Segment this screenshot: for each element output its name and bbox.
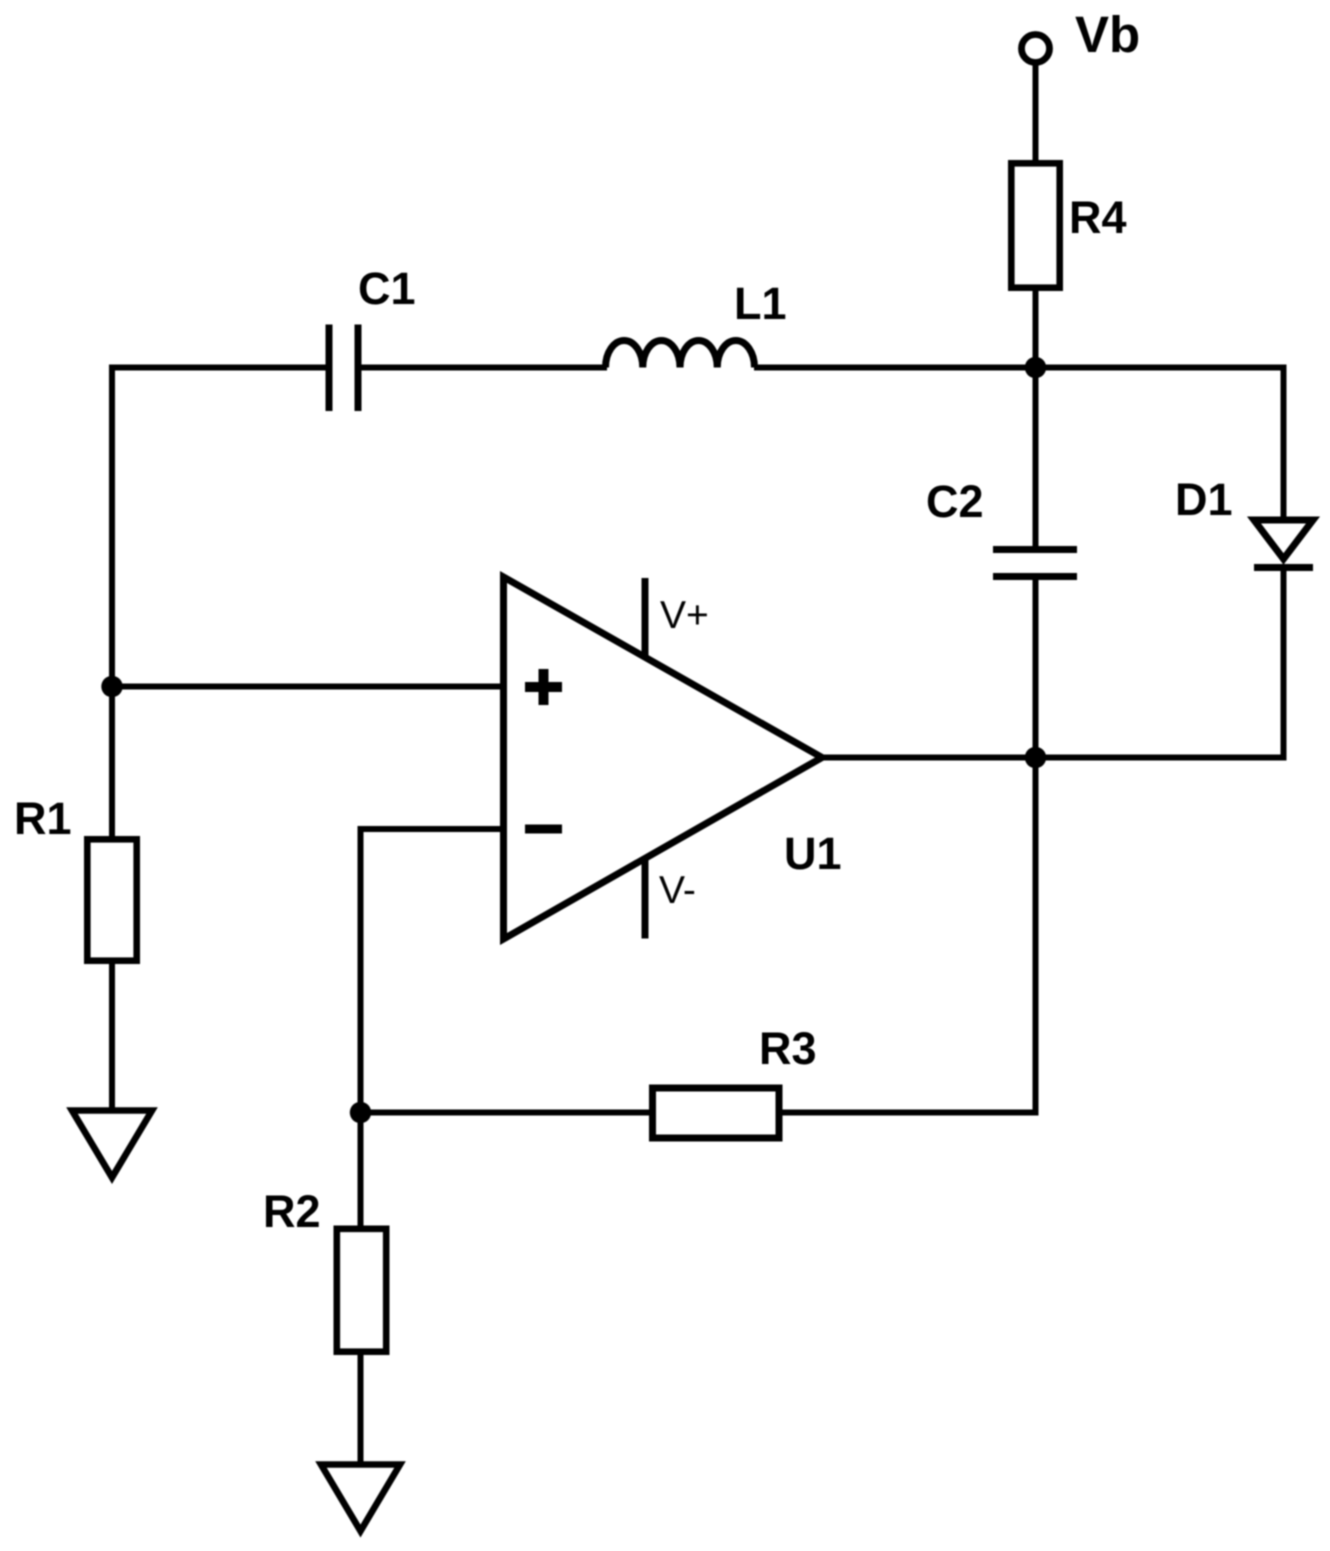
wire non-inverting input — [112, 684, 504, 690]
svg-text:R3: R3 — [759, 1023, 817, 1074]
svg-text:R1: R1 — [14, 793, 72, 844]
op-amp V+ pin — [642, 578, 649, 656]
resistor R3 — [653, 1088, 780, 1138]
resistor R1 — [87, 839, 136, 960]
svg-text:R2: R2 — [263, 1186, 321, 1237]
ground G2 — [321, 1465, 400, 1532]
svg-text:V+: V+ — [660, 594, 709, 637]
wire inverting vertical — [358, 826, 364, 1113]
wire top rail left segment — [112, 365, 329, 371]
junction output node — [1025, 747, 1046, 768]
junction node A — [101, 676, 122, 697]
wire node B to R2 — [358, 1113, 364, 1230]
junction top node — [1025, 357, 1046, 378]
op-amp U1 — [504, 577, 823, 939]
wire C2 to output node — [1033, 580, 1039, 758]
ground G1 — [72, 1111, 152, 1178]
svg-text:U1: U1 — [784, 828, 842, 879]
junction node B — [350, 1102, 371, 1123]
svg-text:V-: V- — [659, 869, 696, 912]
wire inverting input — [361, 826, 504, 832]
wire left rail down — [109, 365, 115, 687]
op-amp plus input marker — [525, 669, 562, 705]
resistor R2 — [337, 1229, 386, 1352]
diode D1 — [1254, 520, 1313, 559]
wire C1 to L1 — [358, 365, 607, 371]
diode D1 cathode bar — [1254, 564, 1313, 571]
svg-text:D1: D1 — [1175, 474, 1233, 525]
node Vb terminal — [1022, 35, 1050, 63]
wire top node to C2 — [1033, 368, 1039, 547]
inductor L1 — [606, 340, 755, 367]
svg-text:C1: C1 — [358, 263, 416, 314]
svg-text:L1: L1 — [734, 278, 787, 329]
wire Vb to R4 — [1033, 66, 1039, 164]
capacitor C1 — [329, 325, 358, 412]
op-amp minus input marker — [525, 825, 562, 834]
wire R2 to ground — [358, 1352, 364, 1465]
wire R3 to right corner — [779, 1110, 1039, 1116]
wire op-amp output — [822, 755, 1036, 761]
wire feedback vertical — [1033, 758, 1039, 1116]
wire D1 to output corner — [1281, 568, 1287, 761]
svg-text:Vb: Vb — [1075, 6, 1140, 63]
capacitor C2 — [993, 550, 1077, 577]
svg-text:R4: R4 — [1069, 192, 1127, 243]
wire L1 to top right corner — [754, 365, 1287, 371]
op-amp V- pin — [642, 858, 649, 939]
wire R1 to ground — [109, 961, 115, 1111]
wire output node to right corner — [1036, 755, 1287, 761]
wire node A to R1 — [109, 687, 115, 840]
resistor R4 — [1011, 163, 1059, 287]
svg-text:C2: C2 — [926, 476, 984, 527]
wire R4 to top node — [1033, 291, 1039, 368]
wire node B to R3 — [361, 1110, 653, 1116]
diode D1 anode wire — [1281, 365, 1287, 524]
